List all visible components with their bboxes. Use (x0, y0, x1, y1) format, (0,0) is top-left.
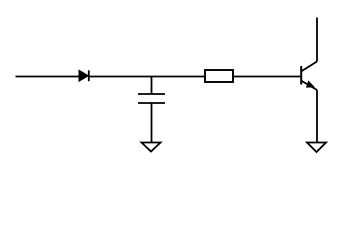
ground (142, 143, 161, 152)
wire (233, 76, 301, 78)
wire (151, 77, 153, 95)
wire (316, 90, 318, 143)
diode D1 (79, 70, 89, 81)
wire (89, 76, 205, 78)
wire (316, 18, 318, 62)
wire (16, 76, 80, 78)
resistor R1 (205, 70, 233, 82)
transistor Q1 (301, 62, 317, 91)
ground (307, 143, 326, 153)
wire (151, 103, 153, 143)
capacitor C1 (138, 94, 165, 103)
